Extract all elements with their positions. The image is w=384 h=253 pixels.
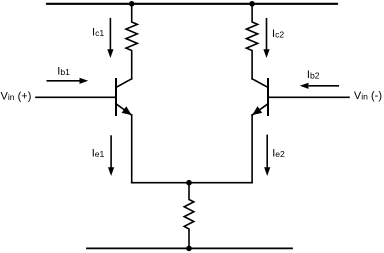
svg-text:Ic2: Ic2 [272, 28, 284, 40]
svg-text:Vin (-): Vin (-) [354, 90, 382, 102]
svg-text:Vin (+): Vin (+) [1, 91, 32, 103]
svg-text:Ie2: Ie2 [272, 147, 285, 159]
svg-text:Ib1: Ib1 [57, 65, 70, 77]
svg-text:Ib2: Ib2 [307, 69, 320, 81]
svg-text:Ie1: Ie1 [92, 148, 105, 160]
svg-text:Ic1: Ic1 [92, 26, 104, 38]
